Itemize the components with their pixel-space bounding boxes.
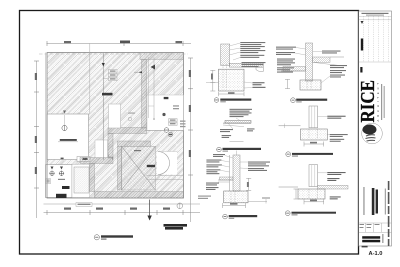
detail 4 right notes: [313, 51, 347, 84]
detail A title: [214, 98, 251, 103]
detail 5 title: [286, 152, 333, 157]
building left edge inner line: [45, 53, 47, 199]
building outline: [47, 53, 184, 199]
detail 5 bottom dimension: [304, 142, 324, 147]
keynote tag cluster right side 2: [169, 119, 178, 126]
detail C bottom dimension: [223, 203, 246, 208]
detail C right notes: [240, 162, 270, 172]
left dimension line: [34, 61, 39, 218]
right dimension line: [188, 58, 193, 222]
bench mark circle on grade line: [177, 203, 183, 209]
detail A grade note: [244, 87, 266, 88]
horizontal lines bottom right region: [147, 176, 184, 180]
project info bold rotated lines: [372, 188, 378, 215]
sheet number A-1.0: [369, 251, 383, 257]
svg-text:A-1.0: A-1.0: [369, 251, 383, 257]
detail A footing block: [219, 64, 245, 96]
detail 5 post note: [318, 116, 346, 119]
stepped wall band: lower vertical to bottom: [90, 164, 95, 192]
detail B slab section drawing: [223, 118, 251, 129]
stepped wall band: horizontal segment 1: [108, 128, 147, 134]
address rotated tiny lines: [381, 84, 385, 120]
detail 5 footing block: [301, 129, 328, 140]
title block outline: [359, 11, 392, 246]
sheet title black bars: [362, 236, 380, 242]
detail 4 left dimension: [285, 79, 290, 88]
small zigzag step line: [103, 154, 112, 160]
section cut arrow below plan: [147, 200, 151, 221]
project info block left text: [363, 187, 364, 215]
unexcavated white box upper: [47, 111, 90, 162]
detail C slab at left: [218, 177, 233, 182]
interior stepped wall band: vertical segment: [142, 60, 147, 129]
detail 5 post: [309, 106, 318, 128]
plan title text MAIN FOUNDATION FLOOR PLAN: [101, 235, 133, 239]
spa arc white circle in patio: [157, 152, 178, 175]
detail A left dimension: [206, 70, 219, 91]
unexcavated white box lower: [46, 165, 90, 198]
label under bottom edge: [76, 203, 92, 207]
detail 4 footing block: [300, 80, 321, 90]
project info right text: [385, 189, 386, 215]
sheet border frame: [20, 11, 359, 255]
patio symbols cluster: [162, 97, 179, 137]
svg-text:ARCHITECT: ARCHITECT: [376, 80, 380, 121]
interior wall vertical line w/ arrow upper-left: [102, 53, 113, 160]
detail B notes text block: [230, 109, 253, 117]
corridor wall lines: [148, 57, 155, 120]
detail A wall section hatched stem: [221, 44, 230, 66]
detail 4 title: [291, 98, 328, 103]
detail C lower-left notes: [206, 183, 219, 191]
detail 4 right slab: [313, 57, 345, 66]
slab hatch field: [47, 53, 184, 199]
detail C top notes: [213, 154, 233, 158]
keynote tag cluster right side 1: [180, 121, 186, 128]
great room white region: [128, 95, 184, 130]
detail C title: [223, 214, 258, 219]
top wall hatched band: [140, 53, 184, 60]
right arrow mid plan: [134, 71, 142, 73]
bottom wall hatched band: [95, 192, 184, 199]
detail 4 left slab: [281, 67, 306, 72]
date scale boxes: [359, 223, 392, 232]
detail A rebar note: [244, 82, 265, 85]
top dimension line: [47, 41, 192, 47]
slab label black blob upper-left: [102, 93, 113, 96]
revision marker black bar 1: [361, 21, 364, 51]
keynote tag cluster upper-center: [109, 70, 118, 81]
detail A slab band right: [229, 63, 263, 71]
dense cross-hatch patio square: [122, 146, 156, 190]
detail B title: [217, 142, 261, 152]
white notch left of patio band: [95, 140, 108, 158]
detail C left notes: [206, 160, 229, 175]
stepped wall band: vertical segment 2: [108, 134, 113, 159]
date scale tiny text: [360, 224, 380, 228]
detail 6 post: [309, 165, 318, 187]
patio edge band horizontal: [118, 141, 151, 146]
detail 6 porch slab right: [318, 185, 348, 189]
small dash under title: [362, 246, 368, 248]
detail 4 left notes: [276, 47, 306, 73]
ARCHITECTS vertical small text: [376, 80, 380, 121]
detail C grade line right: [248, 198, 270, 204]
svg-text:RICE: RICE: [357, 80, 379, 123]
vent circle in white box A: [62, 115, 67, 131]
horizontal line across right portion: [145, 129, 184, 131]
white notch above stepped band corner: [109, 104, 121, 128]
detail B left labels: [220, 129, 233, 138]
detail 4 stem wall: [306, 43, 313, 81]
right edge plot text rotated: [382, 181, 389, 246]
top dashed reference line: [39, 44, 188, 115]
keynote black box below plan: [164, 224, 188, 230]
patio edge band vertical: [118, 146, 122, 190]
spa label black blob: [134, 150, 155, 167]
architect stamp circle: [362, 123, 383, 144]
revision table header text: [362, 13, 389, 16]
detail A leader notes text block: [229, 42, 265, 67]
detail C stem wall vertical: [230, 151, 241, 192]
bottom dimension line: [44, 208, 201, 216]
detail 6 footing block: [298, 189, 325, 199]
revision marker black bar 2: [360, 67, 362, 73]
detail 5 grade line: [279, 124, 301, 129]
detail 6 bottom dimension: [304, 199, 324, 204]
detail 6 post note: [318, 172, 346, 181]
detail C footing block: [224, 191, 248, 203]
detail 6 grade line: [279, 186, 298, 188]
revision table grid: [359, 16, 392, 62]
detail 6 left dimension: [294, 189, 299, 199]
black keynote box in white box B: [62, 186, 70, 189]
black keynote box lower: [56, 194, 67, 198]
detail 6 title: [285, 211, 336, 216]
detail B right labels: [247, 128, 255, 131]
bottom outer grade line: [44, 203, 201, 205]
detail 6 right note: [330, 196, 341, 199]
RICE logo rotated text: [357, 80, 379, 123]
stepped wall band: horizontal segment 2: [80, 158, 113, 164]
detail C right dimension: [246, 178, 251, 190]
label inside white box A: [58, 139, 78, 142]
plan title circle: [94, 235, 99, 240]
small note right of plan bottom: [198, 196, 211, 200]
detail 5 right notes: [327, 134, 347, 142]
symbols in white box B: [46, 167, 66, 184]
